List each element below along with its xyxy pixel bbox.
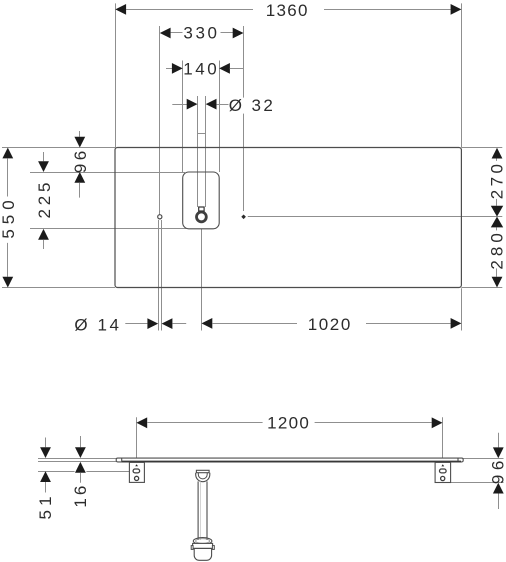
extension line 1200 left	[136, 417, 138, 458]
extension line top edge left	[2, 147, 115, 149]
extension line 140 right	[219, 61, 221, 173]
dimension 1360	[115, 1, 461, 20]
extension line bottom edge right	[461, 287, 502, 289]
dimension dia14	[74, 316, 186, 335]
dimension 280	[487, 217, 506, 288]
extension line 1200 right	[442, 417, 444, 458]
extension line 1360 right	[461, 3, 463, 147]
svg-text:Ø 14: Ø 14	[74, 316, 121, 335]
svg-text:225: 225	[35, 179, 54, 219]
dimension 225	[35, 152, 54, 249]
dimension 1020	[202, 315, 462, 334]
dimension 16	[71, 436, 90, 508]
dimension 1200	[136, 414, 442, 433]
console slab (front view)	[116, 458, 463, 462]
extension line slab top right	[463, 458, 503, 460]
svg-text:96: 96	[489, 456, 506, 484]
extension line bracket slot	[38, 471, 129, 473]
extension line 330 left	[159, 26, 161, 215]
dimension 550	[0, 148, 18, 288]
countertop outline (top view)	[115, 148, 461, 288]
extension line bottom edge left	[2, 287, 115, 289]
dimension 330	[160, 24, 244, 43]
svg-text:550: 550	[0, 195, 18, 238]
small hole dia14	[158, 215, 162, 219]
dimension 270	[487, 148, 506, 217]
extension line bracket bottom right	[451, 482, 504, 484]
svg-text:330: 330	[183, 24, 219, 43]
drain tailpiece nut	[196, 470, 210, 481]
extension line slab bottom left	[38, 461, 116, 463]
trap collar band	[191, 543, 214, 549]
svg-text:1200: 1200	[267, 414, 310, 433]
basin recess rounded rectangle	[183, 172, 220, 229]
extension line slab top left	[38, 458, 116, 460]
svg-text:96: 96	[71, 147, 90, 173]
left wall bracket	[129, 462, 144, 482]
tap hole ring dia32	[197, 212, 207, 222]
svg-text:280: 280	[487, 229, 506, 269]
dimension dia32	[172, 96, 275, 115]
extension line hole depth 225	[30, 228, 186, 230]
extension line 1360 left	[115, 3, 117, 147]
reference point diamond	[241, 215, 246, 220]
extension line 140 left	[182, 61, 184, 173]
svg-text:Ø 32: Ø 32	[229, 96, 275, 115]
svg-text:16: 16	[71, 483, 90, 508]
tap hole notch	[199, 207, 204, 211]
trap cup	[194, 548, 211, 560]
dimension 51	[36, 438, 55, 520]
right wall bracket	[435, 462, 451, 482]
drain pipe	[198, 481, 207, 540]
dimension 96 (recess offset)	[71, 131, 90, 198]
extension lines dia14	[159, 220, 162, 331]
dimension 96 (bracket height)	[489, 433, 506, 509]
dimension 140	[166, 60, 243, 79]
svg-text:1020: 1020	[308, 315, 352, 334]
centre line vertical (drain)	[201, 229, 203, 331]
svg-text:51: 51	[36, 492, 55, 519]
extension line hole depth 96	[30, 172, 185, 174]
extension line top edge right	[461, 147, 502, 149]
extension line 1020 right	[461, 288, 463, 330]
svg-text:270: 270	[487, 161, 506, 200]
centre line horizontal	[248, 216, 502, 218]
svg-text:1360: 1360	[266, 1, 309, 20]
tap slot bar	[198, 133, 206, 135]
trap rim	[193, 538, 212, 545]
svg-text:140: 140	[183, 60, 219, 79]
extension lines dia32	[198, 96, 206, 207]
extension line 330 right	[243, 26, 245, 211]
